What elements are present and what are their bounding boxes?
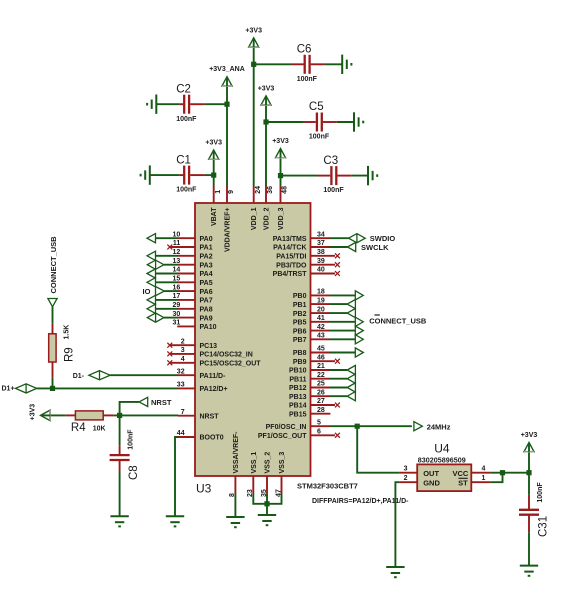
svg-text:100nF: 100nF <box>176 187 197 194</box>
wire R9 to D1+ net <box>52 377 54 388</box>
svg-text:PA7: PA7 <box>200 298 213 305</box>
junction NRST net <box>117 413 122 418</box>
svg-text:CONNECT_USB: CONNECT_USB <box>369 317 427 326</box>
U3 note DIFFPAIRS <box>312 498 409 505</box>
svg-text:27: 27 <box>317 398 325 405</box>
svg-text:19: 19 <box>317 297 325 304</box>
wire VDD_1 rail to C6 <box>254 63 291 65</box>
port arrow CONNECT_USB (down) <box>48 299 57 307</box>
input port arrow on PB2 <box>330 309 356 318</box>
ground at C2 <box>147 95 156 114</box>
input port arrow on PB11 <box>330 374 356 383</box>
wire D1+ to PA12/D+ <box>37 387 178 389</box>
svg-text:PB12: PB12 <box>289 385 307 392</box>
svg-text:PA9: PA9 <box>200 315 213 322</box>
ground at VSS <box>258 515 276 525</box>
svg-text:PF0/OSC_IN: PF0/OSC_IN <box>266 424 307 431</box>
svg-text:+3V3: +3V3 <box>30 404 37 421</box>
U4 pin name VCC <box>452 469 468 478</box>
input port arrow on PA2 <box>147 251 178 260</box>
input port arrow on PA4 <box>147 269 178 278</box>
svg-text:39: 39 <box>317 258 325 265</box>
svg-text:PC14/OSC32_IN: PC14/OSC32_IN <box>200 352 253 359</box>
capacitor C2 <box>176 83 205 122</box>
svg-text:PA0: PA0 <box>200 236 213 243</box>
pin 17 PA7 (left) <box>173 293 213 305</box>
svg-text:1: 1 <box>482 475 486 482</box>
svg-text:PA4: PA4 <box>200 271 213 278</box>
+3V3 power symbol (VDD_2) <box>258 85 275 105</box>
wire C3 to ground <box>351 175 368 177</box>
svg-text:+3V3: +3V3 <box>272 138 289 145</box>
pin 31 PA10 (left) <box>173 320 217 332</box>
svg-text:C31: C31 <box>537 516 549 537</box>
junction R9/D1+ <box>50 386 55 391</box>
input port arrow on PB13 <box>330 392 356 401</box>
junction VCC/+3V3/C31 <box>526 470 531 475</box>
wire VSS_3 elbow <box>267 494 282 504</box>
capacitor C5 <box>303 101 337 140</box>
U4 reference label <box>434 442 450 456</box>
svg-text:PB5: PB5 <box>293 320 307 327</box>
wire BOOT0 to ground <box>175 437 178 516</box>
U3 value STM32F303CBT7 <box>297 482 358 491</box>
svg-text:SWDIO: SWDIO <box>370 234 396 243</box>
svg-text:PB1: PB1 <box>293 302 307 309</box>
wire +3V3 down to C31 <box>528 453 530 495</box>
ground at C3 <box>368 166 377 185</box>
input port arrow on PA8 <box>147 304 178 313</box>
svg-text:PA8: PA8 <box>200 307 213 314</box>
svg-text:STM32F303CBT7: STM32F303CBT7 <box>297 482 358 491</box>
svg-text:PB4/TRST: PB4/TRST <box>273 271 308 278</box>
pin 2 PC13 (left) <box>167 338 217 350</box>
capacitor C8 <box>110 429 140 480</box>
junction at C2 tap <box>224 102 229 107</box>
svg-text:43: 43 <box>317 333 325 340</box>
svg-text:48: 48 <box>282 186 289 194</box>
pin 22 PB11 (right) <box>289 372 329 384</box>
U4 pin name ST (active low) <box>458 478 468 487</box>
svg-text:PA6: PA6 <box>200 289 213 296</box>
pin 26 PB13 (right) <box>289 389 330 401</box>
svg-text:PB11: PB11 <box>289 376 306 383</box>
wire D1- to PA11/D- <box>110 374 178 376</box>
wire U4 GND to ground <box>395 482 399 567</box>
svg-text:PA14/TCK: PA14/TCK <box>273 245 306 252</box>
pin 27 PB14 (right) <box>289 398 340 410</box>
svg-text:10K: 10K <box>93 425 106 432</box>
wire C5 to ground <box>337 121 354 123</box>
pin 24 VDD_1 (top) <box>251 186 262 231</box>
pin 43 PB7 (right) <box>293 333 330 345</box>
svg-text:24MHz: 24MHz <box>427 423 451 432</box>
svg-text:C3: C3 <box>323 155 338 167</box>
pin 40 PB4/TRST (right) <box>273 267 340 279</box>
+3V3 power symbol (top, VDD_1) <box>245 27 262 47</box>
pin 30 PA9 (left) <box>173 311 213 323</box>
U4 pin 4 VCC <box>471 466 490 473</box>
pin 39 PB3/TDO (right) <box>276 258 340 270</box>
ground at C31 <box>520 566 538 576</box>
input port arrow on PA14/TCK <box>330 242 356 251</box>
svg-text:+3V3: +3V3 <box>258 85 275 92</box>
pin 7 NRST (left) <box>178 409 219 421</box>
svg-text:+3V3: +3V3 <box>245 27 262 34</box>
pin 5 PF0/OSC_IN (right) <box>266 419 330 431</box>
svg-text:PC15/OSC32_OUT: PC15/OSC32_OUT <box>200 361 262 368</box>
svg-text:C5: C5 <box>309 101 324 113</box>
svg-text:VSS_2: VSS_2 <box>264 452 271 474</box>
pin 9 VDDA/VREF+ (top) <box>224 186 235 253</box>
pin 8 VSSA/VREF- (bottom) <box>229 431 240 497</box>
resistor R4 <box>65 411 113 420</box>
pin 48 VDD_3 (top) <box>278 186 289 231</box>
pin 45 PB8 (right) <box>293 346 330 358</box>
wire +3V3 to VDD_3 <box>280 159 282 186</box>
U4 pin 1 ST <box>471 475 490 482</box>
svg-text:+3V3_ANA: +3V3_ANA <box>209 66 245 73</box>
svg-text:4: 4 <box>181 356 185 363</box>
wire CONNECT_USB to R9 <box>52 307 54 323</box>
R4 value 10K <box>93 425 106 432</box>
svg-text:25: 25 <box>317 381 325 388</box>
svg-text:3: 3 <box>404 466 408 473</box>
wire VSSA/VREF- to ground <box>234 494 236 518</box>
wire VDD_3 rail to C3 <box>281 175 318 177</box>
svg-text:5: 5 <box>317 419 321 426</box>
svg-text:U3: U3 <box>196 482 212 496</box>
svg-text:21: 21 <box>317 363 325 370</box>
wire C6 to ground <box>325 63 343 65</box>
svg-text:SWCLK: SWCLK <box>361 243 389 252</box>
svg-text:VDD_2: VDD_2 <box>263 207 270 230</box>
ground at C1 <box>141 165 150 184</box>
pin 13 PA3 (left) <box>173 258 213 270</box>
capacitor C1 <box>176 154 205 193</box>
output port arrow on PB6 <box>330 326 364 335</box>
output port arrow on PA6 <box>156 287 179 296</box>
svg-text:37: 37 <box>317 240 325 247</box>
svg-text:C8: C8 <box>128 465 140 480</box>
svg-text:PA2: PA2 <box>200 254 213 261</box>
svg-text:24: 24 <box>255 186 262 194</box>
svg-text:46: 46 <box>317 354 325 361</box>
svg-text:41: 41 <box>317 315 325 322</box>
svg-text:PA10: PA10 <box>200 324 217 331</box>
pin 33 PA12/D+ (left) <box>177 382 228 394</box>
svg-text:PB10: PB10 <box>289 368 307 375</box>
wire C2 to VDDA rail <box>205 103 227 105</box>
svg-text:GND: GND <box>423 479 440 488</box>
capacitor C3 <box>318 155 352 194</box>
svg-text:100nF: 100nF <box>297 76 318 83</box>
svg-text:22: 22 <box>317 372 325 379</box>
svg-text:26: 26 <box>317 389 325 396</box>
pin 28 PB15 (right) <box>289 407 330 419</box>
R9 value 1.5K <box>64 325 71 340</box>
junction ST/VCC <box>500 470 505 475</box>
svg-text:PB7: PB7 <box>293 337 307 344</box>
wire U4 ST up to VCC net <box>491 473 503 483</box>
svg-text:CONNECT_USB: CONNECT_USB <box>49 236 58 294</box>
U4 value 830205896509 <box>418 456 466 465</box>
pin 12 PA2 (left) <box>173 249 213 261</box>
svg-text:38: 38 <box>317 249 325 256</box>
svg-text:PA3: PA3 <box>200 262 213 269</box>
net label SWCLK <box>361 243 389 252</box>
svg-text:9: 9 <box>228 190 235 194</box>
svg-text:100nF: 100nF <box>323 187 344 194</box>
+3V3 power symbol (VDD_3) <box>272 138 289 158</box>
+3V3 power symbol (VBAT) <box>205 140 222 160</box>
wire VSS_2 down <box>266 494 268 516</box>
junction OSC net <box>355 424 360 429</box>
port 24MHz arrow <box>414 422 422 431</box>
svg-text:20: 20 <box>317 306 325 313</box>
svg-text:BOOT0: BOOT0 <box>200 435 224 442</box>
svg-text:VSS_1: VSS_1 <box>251 452 258 474</box>
net label CONNECT_USB (right) <box>369 315 427 326</box>
pin 41 PB5 (right) <box>293 315 330 327</box>
svg-text:VSS_3: VSS_3 <box>279 452 286 474</box>
pin 25 PB12 (right) <box>289 381 330 393</box>
svg-text:4: 4 <box>482 466 486 473</box>
resistor R9 <box>49 323 56 377</box>
svg-text:2: 2 <box>181 338 185 345</box>
pin 19 PB1 (right) <box>293 297 330 309</box>
svg-text:PA12/D+: PA12/D+ <box>200 386 228 393</box>
svg-text:D1+: D1+ <box>2 385 15 392</box>
svg-text:PA13/TMS: PA13/TMS <box>273 236 307 243</box>
pin 32 PA11/D- (left) <box>177 368 226 380</box>
wire PF0/OSC_IN to 24MHz <box>330 425 412 427</box>
svg-text:100nF: 100nF <box>537 482 544 503</box>
svg-text:36: 36 <box>267 186 274 194</box>
output port arrow on PB7 <box>330 335 364 344</box>
input port arrow on PA5 <box>147 278 178 287</box>
pin 46 PB9 (right) <box>293 354 340 366</box>
svg-text:ST: ST <box>458 479 468 488</box>
wire VDD_2 rail to C5 <box>266 121 303 123</box>
pin 35 VSS_2 (bottom) <box>261 452 272 497</box>
pin 15 PA5 (left) <box>173 276 213 288</box>
wire +3V3 to VDD_2 <box>265 106 267 186</box>
port D1+ diamond <box>16 384 37 393</box>
svg-text:100nF: 100nF <box>127 429 134 450</box>
svg-text:D1-: D1- <box>73 373 85 380</box>
junction at C3 tap <box>278 173 283 178</box>
svg-text:VSSA/VREF-: VSSA/VREF- <box>233 431 240 474</box>
svg-text:NRST: NRST <box>200 413 220 420</box>
capacitor C6 <box>291 44 325 83</box>
output port arrow on PB5 <box>330 317 364 326</box>
capacitor C31 <box>519 482 549 537</box>
wire NRST stub up <box>120 402 139 416</box>
svg-text:18: 18 <box>317 289 325 296</box>
wire ground to C1 <box>150 174 180 176</box>
wire +3V3 to VDD_1 <box>253 48 255 186</box>
pin 16 PA6 (left) <box>173 284 213 296</box>
pin 4 PC15/OSC32_OUT (left) <box>167 356 261 368</box>
svg-text:PB3/TDO: PB3/TDO <box>276 262 307 269</box>
+3V3 power symbol (left, R4) <box>30 404 51 421</box>
pin 36 VDD_2 (top) <box>263 186 274 231</box>
pin 18 PB0 (right) <box>293 289 330 301</box>
svg-text:100nF: 100nF <box>309 134 330 141</box>
port D1+ label <box>2 385 15 392</box>
wire OSC to U4 OUT <box>357 426 399 473</box>
net label SWDIO <box>370 234 396 243</box>
svg-text:VBAT: VBAT <box>211 207 218 226</box>
svg-text:3: 3 <box>181 347 185 354</box>
R9 reference label <box>64 347 76 362</box>
U4 pin 3 OUT <box>400 466 418 473</box>
svg-text:VDD_1: VDD_1 <box>251 207 258 230</box>
pin 29 PA8 (left) <box>173 302 213 314</box>
bidirectional port arrow on PA3 <box>147 260 178 269</box>
IC U3 STM32F303CBT7 body <box>195 203 311 476</box>
junction VSS net <box>264 501 269 506</box>
bidirectional port arrow on PA13/TMS <box>330 234 366 243</box>
svg-text:40: 40 <box>317 267 325 274</box>
pin 23 VSS_1 (bottom) <box>247 452 258 497</box>
pin 6 PF1/OSC_OUT (right) <box>258 429 340 441</box>
net label CONNECT_USB (left, vertical) <box>49 236 58 294</box>
input port arrow on PA7 <box>147 295 178 304</box>
port D1- label <box>73 373 85 380</box>
ground at C6 <box>342 55 351 74</box>
svg-text:7: 7 <box>181 409 185 416</box>
svg-text:+3V3: +3V3 <box>521 432 538 439</box>
ground at C5 <box>354 112 363 131</box>
pin 37 PA14/TCK (right) <box>273 240 329 252</box>
wire R4 to NRST pin <box>113 414 178 416</box>
net label 24MHz <box>427 423 451 432</box>
R4 reference label <box>71 422 86 434</box>
wire C8 to ground <box>119 472 121 517</box>
svg-text:PB14: PB14 <box>289 403 307 410</box>
pin 3 PC14/OSC32_IN (left) <box>167 347 252 359</box>
svg-text:R9: R9 <box>64 347 76 362</box>
svg-text:VDDA/VREF+: VDDA/VREF+ <box>224 208 231 253</box>
svg-text:PB2: PB2 <box>293 311 307 318</box>
pin 14 PA4 (left) <box>173 267 213 279</box>
+3V3_ANA power symbol <box>209 66 245 86</box>
net label IO on PA6 <box>143 287 151 296</box>
bidirectional port arrow on PA9 <box>147 313 178 322</box>
ground at VSSA <box>226 517 244 527</box>
svg-text:IO: IO <box>143 287 151 296</box>
svg-text:PB15: PB15 <box>289 411 307 418</box>
svg-text:PB9: PB9 <box>293 359 307 366</box>
svg-text:PF1/OSC_OUT: PF1/OSC_OUT <box>258 433 307 440</box>
junction at C5 tap <box>263 119 268 124</box>
svg-text:42: 42 <box>317 324 325 331</box>
svg-text:11: 11 <box>173 240 181 247</box>
input port arrow on PB1 <box>330 300 356 309</box>
svg-text:6: 6 <box>317 429 321 436</box>
wire +3V3 to R4 <box>51 414 66 416</box>
svg-text:C1: C1 <box>176 154 191 166</box>
ground at U4 <box>386 567 404 577</box>
svg-text:C2: C2 <box>176 83 191 95</box>
oscillator U4 body <box>417 464 471 491</box>
svg-text:PA15/TDI: PA15/TDI <box>276 254 306 261</box>
ground at BOOT0 <box>166 516 184 526</box>
input port arrow on PA0 <box>147 234 178 243</box>
svg-text:2: 2 <box>404 475 408 482</box>
wire VSS_1 elbow <box>253 494 267 504</box>
U4 pin name OUT <box>423 469 439 478</box>
wire ground to C2 <box>156 103 179 105</box>
U3 reference label <box>196 482 212 496</box>
port NRST arrow <box>139 397 148 406</box>
+3V3 power symbol (U4/C31) <box>521 432 538 452</box>
pin 21 PB10 (right) <box>289 363 330 375</box>
pin 44 BOOT0 (left) <box>177 430 224 442</box>
svg-text:28: 28 <box>317 407 325 414</box>
svg-text:PB6: PB6 <box>293 328 307 335</box>
U4 pin name GND <box>423 479 440 488</box>
pin 47 VSS_3 (bottom) <box>275 452 286 497</box>
output port arrow on PB0 <box>330 291 364 300</box>
wire +3V3_ANA to VDDA/VREF+ <box>226 87 228 186</box>
pin 34 PA13/TMS (right) <box>273 231 330 243</box>
wire NRST junction to C8 <box>119 415 121 445</box>
svg-text:31: 31 <box>173 320 181 327</box>
wire C31 to ground <box>528 532 530 565</box>
wire C1 to VBAT rail <box>205 174 214 176</box>
output port arrow on PB8 <box>330 348 364 357</box>
pin 10 PA0 (left) <box>173 231 213 243</box>
svg-text:R4: R4 <box>71 422 86 434</box>
input port arrow on PB12 <box>330 383 356 392</box>
junction at C6 tap <box>251 62 256 67</box>
svg-text:C6: C6 <box>297 44 312 56</box>
svg-text:+3V3: +3V3 <box>205 140 222 147</box>
svg-text:NRST: NRST <box>151 398 172 407</box>
svg-text:OUT: OUT <box>423 469 439 478</box>
ground at C8 <box>110 516 128 526</box>
pin 11 PA1 (left) <box>167 240 212 252</box>
svg-text:100nF: 100nF <box>176 116 197 123</box>
pin 20 PB2 (right) <box>293 306 330 318</box>
U4 pin 2 GND <box>400 475 418 482</box>
wire +3V3 to VBAT <box>213 160 215 186</box>
svg-text:U4: U4 <box>434 442 450 456</box>
net label NRST <box>151 398 172 407</box>
svg-text:830205896509: 830205896509 <box>418 456 466 465</box>
svg-text:PA5: PA5 <box>200 280 213 287</box>
pin 1 VBAT (top) <box>211 186 222 227</box>
svg-text:VCC: VCC <box>452 469 468 478</box>
svg-text:PB0: PB0 <box>293 293 307 300</box>
pin 38 PA15/TDI (right) <box>276 249 340 261</box>
junction at C1 tap <box>211 173 216 178</box>
input port arrow on PB10 <box>330 365 356 374</box>
svg-text:PA1: PA1 <box>200 245 213 252</box>
svg-text:1: 1 <box>215 190 222 194</box>
svg-text:34: 34 <box>317 231 325 238</box>
svg-text:PB8: PB8 <box>293 350 307 357</box>
svg-text:1.5K: 1.5K <box>64 325 71 340</box>
port D1- diamond <box>89 371 110 380</box>
pin 42 PB6 (right) <box>293 324 330 336</box>
wire U4 VCC to +3V3 <box>491 472 529 474</box>
svg-text:PC13: PC13 <box>200 343 218 350</box>
svg-text:45: 45 <box>317 346 325 353</box>
